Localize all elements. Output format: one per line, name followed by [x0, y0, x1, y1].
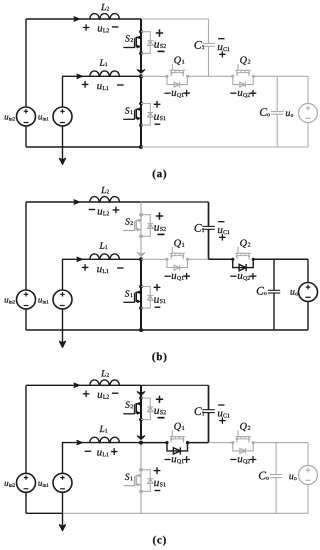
wire left rail c	[25, 385, 27, 473]
subfigure (b)	[5, 187, 318, 363]
junction dots of Q1 b	[165, 258, 189, 261]
current arrow above node between S2 and L1 row b	[137, 253, 145, 257]
label uC1 b	[218, 228, 230, 234]
junction node S-branch / L1 row b	[139, 257, 143, 261]
wire top rail left (uin2 to S-branch) c	[26, 384, 141, 386]
current arrow on top rail a	[74, 17, 80, 21]
label -uQ2+ a	[230, 90, 256, 98]
current arrow on L1 row b	[77, 257, 83, 261]
body diode loop of Q1 c	[167, 443, 188, 455]
capacitor C1 c	[202, 385, 214, 442]
current arrow on top rail b	[74, 200, 80, 204]
label S2 a	[125, 35, 133, 42]
label + of uS1 b	[154, 284, 161, 291]
label uL2 b	[98, 210, 109, 216]
wire top rail left (uin2 to S-branch) a	[26, 18, 141, 20]
wire top rail right (S-branch to C1) c	[141, 384, 209, 386]
label - of uC1 c	[218, 404, 224, 406]
label + of uC1 b	[219, 234, 225, 240]
label + of uL2 c	[83, 391, 90, 398]
wire bottom rail black part c	[26, 512, 63, 514]
wire right rail lower b	[307, 302, 309, 331]
wire bottom rail gray part c	[63, 512, 309, 514]
wire L1 row (uin1 to S-branch) a	[63, 76, 142, 107]
label + of uS2 c	[156, 396, 163, 403]
label Q1 c	[174, 423, 184, 431]
label uin2 c	[5, 482, 15, 487]
wire uin1 bottom lead c	[62, 492, 64, 513]
label L1 a	[99, 59, 107, 66]
label L2 c	[101, 370, 109, 377]
inductor L1 a	[90, 71, 120, 76]
junction node S-branch / L1 row a	[139, 74, 143, 78]
transistor Q1 channel b	[170, 247, 185, 259]
label Q2 a	[240, 56, 250, 64]
body diode of S1 b	[141, 287, 153, 309]
wire left rail a	[25, 19, 27, 107]
label uL1 c	[97, 451, 108, 457]
current arrow on top rail c	[74, 383, 80, 387]
wire bottom rail black part b	[26, 329, 308, 331]
wire bottom rail black part a	[26, 146, 141, 148]
wire Q row segment B c	[188, 442, 209, 444]
label + of uS1 a	[154, 101, 161, 108]
capacitor C1 b	[202, 202, 214, 259]
label uin2 a	[5, 115, 15, 120]
label uS1 c	[154, 481, 165, 487]
transistor Q1 channel a	[170, 64, 185, 76]
voltage source uo a	[299, 104, 318, 123]
wire Q row segment D c	[253, 442, 308, 444]
capacitor Co a	[271, 76, 283, 147]
junction node S-branch / bottom rail a	[139, 145, 143, 149]
label - of uC1 b	[218, 221, 224, 223]
voltage source uin1 a	[53, 107, 72, 126]
wire Q row segment A b	[141, 258, 167, 260]
label + of uL1 b	[82, 264, 89, 271]
wire uin2 bottom lead c	[25, 492, 27, 513]
wire Q row segment C b	[209, 258, 233, 260]
ground current arrow below bottom rail b	[59, 330, 65, 348]
transistor Q1 channel c	[170, 430, 185, 442]
wire top rail left (uin2 to S-branch) b	[26, 201, 141, 203]
inductor L2 a	[90, 14, 120, 19]
wire S1 branch vertical b	[140, 259, 142, 330]
label uS2 a	[154, 42, 165, 48]
label uin1 a	[38, 115, 48, 120]
wire S2 branch vertical c	[140, 385, 142, 437]
wire L1 row (uin1 to S-branch) c	[63, 443, 142, 474]
junction dots of Q2 b	[231, 258, 255, 261]
junction dots of Q1 c	[165, 441, 189, 444]
subfigure (a)	[5, 4, 318, 180]
junction dots of Q2 c	[231, 441, 255, 444]
label uL2 c	[98, 393, 109, 399]
current arrow above S2 c	[137, 392, 145, 396]
label uS2 b	[154, 225, 165, 231]
caption (a)	[153, 169, 166, 179]
label uL1 b	[97, 267, 108, 273]
body diode loop of Q1 b	[167, 259, 188, 270]
label - of uS2 c	[158, 417, 165, 419]
junction node S-branch / L1 row c	[139, 441, 143, 445]
transistor Q2 channel a	[235, 64, 250, 76]
voltage source uin1 b	[53, 290, 72, 309]
mosfet S1 c	[123, 468, 143, 493]
label - of uL2 c	[112, 392, 119, 394]
label S2 b	[125, 218, 133, 225]
label uin1 c	[38, 482, 48, 487]
label Co b	[257, 287, 267, 295]
current arrow above node between S2 and L1 row c	[137, 436, 145, 440]
transistor Q2 channel b	[235, 247, 250, 259]
label + of uL1 c	[111, 448, 118, 455]
capacitor C1 a	[202, 19, 214, 76]
label Q1 b	[174, 239, 184, 247]
label uo c	[289, 475, 296, 480]
label Q1 a	[174, 56, 184, 64]
wire Q row segment C a	[209, 75, 233, 77]
current arrow on L1 row c	[77, 440, 83, 444]
label + of uL2 b	[113, 207, 120, 214]
wire L1 row (uin1 to S-branch) b	[63, 259, 142, 290]
label L2 b	[101, 187, 109, 194]
body diode of S2 c	[141, 398, 153, 420]
label - of uS1 b	[155, 306, 161, 308]
current arrow on L1 row a	[77, 74, 83, 78]
junction node S-branch / bottom rail b	[139, 328, 143, 332]
label - of uL1 c	[85, 450, 92, 452]
wire right rail upper a	[307, 76, 309, 103]
body diode loop of Q2 b	[233, 259, 254, 271]
ground current arrow below bottom rail a	[59, 147, 65, 165]
label uin1 b	[38, 298, 48, 303]
label C1 c	[195, 407, 205, 415]
label Co c	[259, 472, 269, 480]
label - of uL2 b	[89, 209, 96, 211]
label -uQ2+ c	[230, 456, 256, 464]
label C1 a	[195, 41, 205, 49]
label Co a	[260, 108, 270, 116]
mosfet S2 b	[123, 213, 143, 238]
label + of uC1 c	[219, 417, 225, 423]
label + of uS1 c	[154, 467, 161, 474]
mosfet S1 b	[123, 285, 143, 310]
wire S1 branch vertical c	[140, 443, 142, 514]
inductor L1 c	[90, 437, 120, 442]
label uL1 a	[97, 84, 108, 90]
junction dots of Q1 a	[165, 75, 189, 78]
voltage source uin2 c	[17, 473, 36, 492]
body diode loop of Q1 a	[167, 76, 188, 87]
voltage source uin2 a	[17, 107, 36, 126]
wire top rail right (S-branch to C1) b	[141, 201, 209, 203]
wire bottom rail gray part a	[141, 146, 308, 148]
label + of uL1 a	[82, 81, 89, 88]
inductor L1 b	[90, 254, 120, 259]
label -uQ1+ b	[165, 273, 190, 281]
junction dots of Q2 a	[231, 75, 255, 78]
label - of uS2 b	[158, 233, 165, 235]
inductor L2 b	[90, 197, 120, 202]
label L1 b	[99, 242, 107, 249]
label - of uL1 a	[117, 84, 124, 86]
label S1 c	[125, 474, 133, 481]
capacitor Co c	[270, 443, 282, 514]
body diode of S1 a	[141, 104, 153, 126]
wire S1 branch vertical a	[140, 76, 142, 147]
wire left rail b	[25, 202, 27, 290]
mosfet S1 a	[123, 102, 143, 127]
wire uin2 bottom lead a	[25, 126, 27, 147]
wire right rail lower a	[307, 123, 309, 148]
body diode of S2 a	[141, 32, 153, 54]
body diode of S1 c	[141, 470, 153, 492]
label Q2 b	[240, 239, 250, 247]
label S1 a	[125, 107, 133, 114]
label uC1 c	[218, 411, 230, 417]
label uS1 b	[154, 298, 165, 304]
label + of uS2 b	[156, 212, 163, 219]
voltage source uo c	[299, 466, 318, 485]
label uC1 a	[218, 45, 230, 51]
voltage source uin1 c	[53, 473, 72, 492]
body diode loop of Q2 c	[233, 443, 254, 454]
label - of uL1 b	[117, 267, 124, 269]
label uo a	[286, 111, 293, 116]
wire right rail upper b	[307, 259, 309, 282]
label uL2 a	[98, 27, 109, 33]
transistor Q2 channel c	[235, 430, 250, 442]
wire top rail right (S-branch to C1) a	[141, 18, 209, 20]
wire Q row segment A c	[141, 442, 167, 444]
label S1 b	[125, 290, 133, 297]
wire Q row segment A a	[141, 75, 167, 77]
caption (c)	[153, 536, 166, 546]
wire S2 branch vertical a	[140, 19, 142, 71]
label uin2 b	[5, 298, 15, 303]
label -uQ1+ c	[165, 456, 190, 464]
label uo b	[290, 290, 297, 295]
wire Q row segment C c	[209, 442, 233, 444]
mosfet S2 c	[123, 396, 143, 421]
voltage source uo b	[299, 283, 318, 302]
inductor L2 c	[90, 380, 120, 385]
wire Q row segment B b	[188, 258, 209, 260]
label - of uS2 a	[158, 50, 165, 52]
wire S2 branch vertical b	[140, 202, 142, 254]
label Q2 c	[240, 423, 250, 431]
label L1 c	[99, 426, 107, 433]
caption (b)	[152, 352, 166, 362]
label -uQ1+ a	[165, 90, 190, 98]
subfigure (c)	[5, 370, 318, 546]
wire uin1 bottom lead b	[62, 309, 64, 330]
body diode loop of Q2 a	[233, 76, 254, 87]
label S2 c	[125, 402, 133, 409]
label uS2 c	[154, 409, 165, 415]
wire uin1 bottom lead a	[62, 126, 64, 147]
voltage source uin2 b	[17, 290, 36, 309]
label - of uL2 a	[112, 26, 119, 28]
label L2 a	[101, 4, 109, 11]
label + of uC1 a	[219, 51, 225, 57]
label + of uS2 a	[156, 29, 163, 36]
label uS1 a	[154, 115, 165, 121]
label + of uL2 a	[83, 24, 90, 31]
wire right rail lower c	[307, 485, 309, 514]
current arrow above node between S2 and L1 row a	[137, 70, 145, 74]
label C1 b	[195, 224, 205, 232]
ground current arrow below bottom rail c	[59, 513, 65, 531]
wire Q row segment D b	[253, 258, 308, 260]
wire Q row segment D a	[253, 75, 308, 77]
wire right rail upper c	[307, 443, 309, 466]
capacitor Co b	[268, 259, 280, 330]
label - of uS1 c	[155, 490, 161, 492]
wire Q row segment B a	[188, 75, 209, 77]
wire uin2 bottom lead b	[25, 309, 27, 330]
mosfet S2 a	[123, 30, 143, 55]
body diode of S2 b	[141, 215, 153, 237]
label - of uS1 a	[155, 123, 161, 125]
label - of uC1 a	[218, 38, 224, 40]
label -uQ2+ b	[230, 273, 256, 281]
